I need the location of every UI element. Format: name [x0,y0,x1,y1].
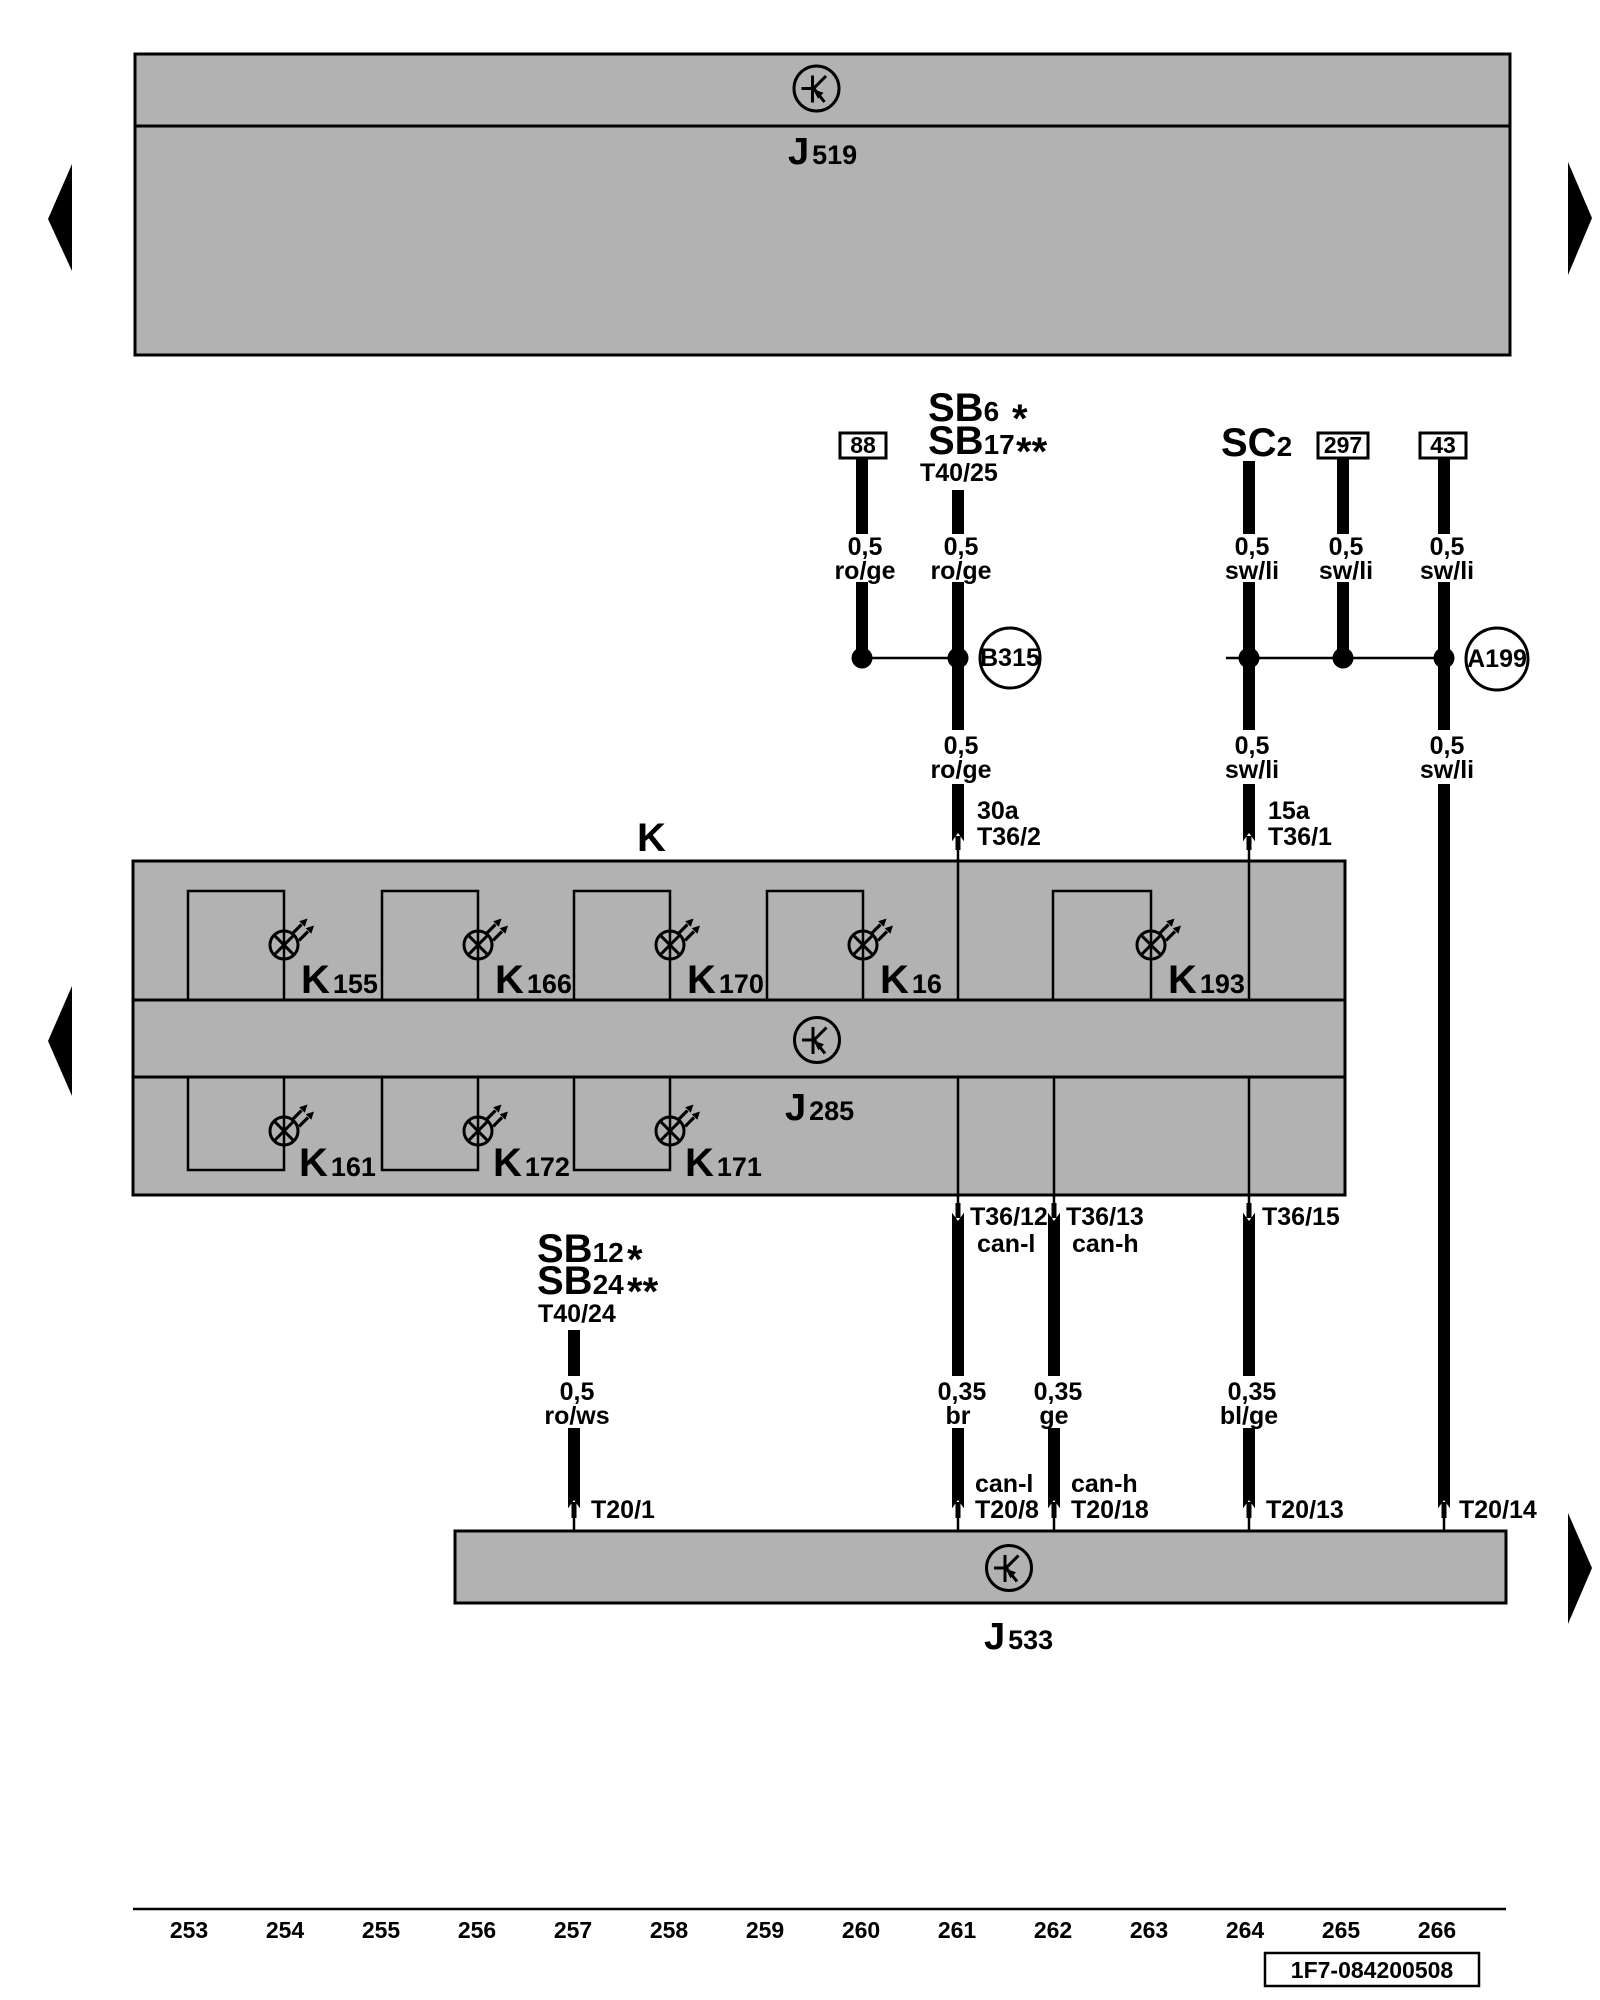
wire SC2 0,5 sw/li [1243,461,1255,534]
svg-text:1F7-084200508: 1F7-084200508 [1291,1957,1454,1983]
svg-text:T36/13: T36/13 [1066,1203,1144,1231]
svg-text:255: 255 [362,1917,401,1943]
svg-text:266: 266 [1418,1917,1456,1943]
svg-text:T36/2: T36/2 [977,823,1041,851]
control unit J533 box [455,1531,1506,1603]
wire stub T36/1 inside box [1248,862,1251,1000]
svg-text:T36/15: T36/15 [1262,1203,1340,1231]
svg-text:T20/8: T20/8 [975,1496,1039,1524]
junction node dot on SC2 wire [1239,648,1260,669]
junction node dot on 297 wire [1333,648,1354,669]
terminal 297 box [1318,433,1368,458]
svg-text:can-h: can-h [1072,1230,1139,1258]
svg-text:257: 257 [554,1917,592,1943]
svg-text:T20/1: T20/1 [591,1496,655,1524]
svg-text:88: 88 [850,432,876,458]
node A199 [1466,628,1528,690]
svg-text:can-l: can-l [977,1230,1035,1258]
page arrow right bottom [1568,1513,1592,1624]
svg-text:**: ** [627,1270,659,1314]
svg-text:sw/li: sw/li [1225,557,1279,585]
wire stub T36/2 inside box [957,862,960,1000]
page arrow left middle [48,986,72,1096]
lamp cell K161 [188,1077,284,1170]
instrument cluster K box [133,861,1345,1195]
svg-text:A199: A199 [1467,645,1527,673]
control unit J519 box [135,54,1510,355]
svg-text:sw/li: sw/li [1420,756,1474,784]
svg-text:sw/li: sw/li [1319,557,1373,585]
svg-text:K: K [637,816,666,860]
lamp cell K16 [767,891,863,1000]
svg-text:T40/25: T40/25 [920,459,998,487]
lamp cell K170 [574,891,670,1000]
current track rule [133,1908,1506,1911]
svg-text:**: ** [1016,430,1048,474]
svg-text:T20/13: T20/13 [1266,1496,1344,1524]
svg-text:259: 259 [746,1917,784,1943]
junction wire link right [1226,657,1444,660]
svg-text:ro/ws: ro/ws [544,1402,609,1430]
svg-text:T36/12: T36/12 [970,1203,1048,1231]
svg-text:264: 264 [1226,1917,1265,1943]
svg-text:B315: B315 [980,644,1040,672]
junction node dot on 43 wire [1434,648,1455,669]
terminal 43 box [1420,433,1466,458]
svg-text:br: br [946,1402,971,1430]
svg-text:T20/14: T20/14 [1459,1496,1537,1524]
svg-text:43: 43 [1430,432,1456,458]
svg-text:T20/18: T20/18 [1071,1496,1149,1524]
wire stub can-l inside box [957,1077,960,1195]
svg-text:263: 263 [1130,1917,1168,1943]
svg-text:15a: 15a [1268,797,1311,825]
svg-text:253: 253 [170,1917,208,1943]
lamp cell K166 [382,891,478,1000]
svg-text:SB17: SB17 [928,419,1015,463]
wire SB12 0,5 ro/ws to T20/1 [568,1330,580,1376]
svg-text:J533: J533 [984,1616,1053,1658]
wire SB fuse T40/25 0,5 ro/ge [952,490,964,534]
diagnostic K symbol in J519 [794,66,839,111]
svg-text:ro/ge: ro/ge [834,557,895,585]
svg-text:sw/li: sw/li [1420,557,1474,585]
svg-text:254: 254 [266,1917,305,1943]
svg-text:can-h: can-h [1071,1470,1138,1498]
wire bl/ge T36/15 to T20/13 [1248,1195,1251,1210]
svg-text:ge: ge [1039,1402,1068,1430]
svg-text:256: 256 [458,1917,496,1943]
svg-text:T40/24: T40/24 [538,1300,616,1328]
svg-text:297: 297 [1324,432,1362,458]
svg-text:SC2: SC2 [1221,421,1292,465]
svg-text:30a: 30a [977,797,1020,825]
wire can-l T36/12 to T20/8 [957,1195,960,1210]
svg-text:260: 260 [842,1917,880,1943]
junction node dot left [852,648,873,669]
diagram number plate [1265,1953,1479,1986]
terminal 88 box [840,433,886,458]
svg-text:sw/li: sw/li [1225,756,1279,784]
diagnostic K symbol in J285 [795,1018,840,1063]
lamp cell K155 [188,891,284,1000]
junction wire link left [862,657,958,660]
diagnostic K symbol in J533 [987,1546,1032,1591]
wire 43 0,5 sw/li [1438,458,1450,534]
svg-text:ro/ge: ro/ge [930,756,991,784]
page arrow left top [48,164,72,271]
svg-text:262: 262 [1034,1917,1072,1943]
node B315 [980,628,1040,688]
svg-text:can-l: can-l [975,1470,1033,1498]
svg-text:bl/ge: bl/ge [1220,1402,1278,1430]
svg-text:ro/ge: ro/ge [930,557,991,585]
wire stub T36/15 inside box [1248,1077,1251,1195]
wire 88 0,5 ro/ge [856,458,868,534]
svg-text:258: 258 [650,1917,689,1943]
junction node dot on SB wire [948,648,969,669]
svg-text:T36/1: T36/1 [1268,823,1332,851]
wire 297 0,5 sw/li [1337,458,1349,534]
lamp cell K171 [574,1077,670,1170]
svg-text:265: 265 [1322,1917,1361,1943]
wire stub can-h inside box [1053,1077,1056,1195]
lamp cell K172 [382,1077,478,1170]
page arrow right top [1568,162,1592,275]
lamp cell K193 [1053,891,1151,1000]
wire can-h T36/13 to T20/18 [1053,1195,1056,1210]
svg-text:261: 261 [938,1917,977,1943]
